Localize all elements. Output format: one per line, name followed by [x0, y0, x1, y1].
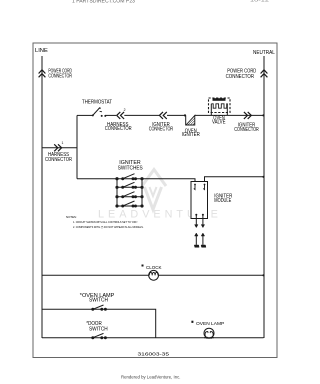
wire: top circuit — [77, 114, 93, 116]
wire: door switch rail — [42, 337, 264, 339]
notes — [66, 215, 144, 229]
label igniter switches — [118, 160, 144, 172]
oven lamp switch — [92, 305, 107, 310]
label oven lamp switch — [80, 293, 115, 304]
svg-text:SWITCH: SWITCH — [89, 297, 108, 303]
svg-text:THERMOSTAT: THERMOSTAT — [82, 100, 113, 106]
igniter module — [191, 182, 208, 219]
svg-text:OVEN LAMP: OVEN LAMP — [196, 321, 224, 327]
label power cord connector (left) — [48, 69, 72, 80]
label oven igniter — [182, 128, 200, 138]
wire: harness branch — [42, 147, 77, 149]
border frame — [33, 43, 277, 358]
svg-text:NEUTRAL: NEUTRAL — [253, 50, 275, 56]
label door switch — [86, 321, 108, 333]
igniter connector left chevrons — [159, 112, 166, 119]
svg-text:VALVE: VALVE — [212, 119, 226, 125]
label igniter module — [214, 193, 232, 203]
igniter switch 4 — [116, 201, 143, 207]
svg-text:CONNECTOR: CONNECTOR — [234, 127, 259, 133]
harness connector 1 chevrons — [54, 144, 61, 151]
svg-text:2. COMPONENTS WITH (*) DO NOT: 2. COMPONENTS WITH (*) DO NOT APPEAR IN … — [73, 225, 144, 229]
svg-text:1 PARTSDIRECT.COM P23: 1 PARTSDIRECT.COM P23 — [72, 0, 135, 5]
watermark logo — [142, 170, 166, 210]
svg-text:10-12: 10-12 — [250, 0, 270, 3]
oven valve — [209, 98, 231, 115]
node: neutral top junction — [262, 114, 264, 116]
wire: riser x77 — [76, 115, 78, 178]
wire: clock rail — [42, 274, 264, 276]
oven lamp — [204, 328, 214, 339]
wire — [195, 114, 264, 116]
igniter switches ladder — [117, 179, 142, 206]
label oven valve — [212, 115, 226, 125]
node: clock-neutral junction — [262, 274, 264, 276]
harness connector 2 chevrons — [117, 112, 124, 119]
svg-text:CLOCK: CLOCK — [146, 265, 162, 271]
wire — [105, 114, 116, 116]
label power cord connector (right) — [226, 69, 257, 81]
spark electrode right — [201, 215, 206, 248]
wire: right NEUTRAL rail — [263, 56, 265, 338]
door switch — [92, 333, 107, 338]
clock — [149, 270, 159, 280]
wire: module to neutral — [205, 177, 264, 182]
igniter switch 1 — [116, 174, 143, 180]
wire: igniter switch row — [77, 178, 117, 180]
label igniter connector left — [149, 122, 174, 132]
svg-text:CONNECTOR: CONNECTOR — [45, 157, 72, 163]
wire — [167, 114, 186, 116]
svg-text:SWITCH: SWITCH — [89, 327, 108, 333]
svg-text:CONNECTOR: CONNECTOR — [105, 126, 132, 132]
label harness connector 1 — [45, 152, 72, 163]
igniter switch 2 — [116, 182, 143, 188]
svg-text:Rendered by LeadVenture, Inc.: Rendered by LeadVenture, Inc. — [121, 375, 180, 380]
thermostat — [92, 108, 107, 117]
svg-text:316003-35: 316003-35 — [138, 351, 170, 356]
svg-text:1: 1 — [62, 141, 64, 145]
svg-text:CONNECTOR: CONNECTOR — [226, 74, 255, 80]
label clock — [142, 265, 163, 271]
svg-text:LINE: LINE — [35, 48, 48, 54]
spark electrode left — [194, 215, 199, 248]
label igniter connector right — [234, 122, 259, 133]
power cord connector (left) — [39, 70, 46, 78]
oven igniter — [186, 115, 195, 125]
power cord connector (right) — [261, 70, 268, 78]
wire: left LINE rail — [41, 56, 43, 338]
svg-text:2: 2 — [124, 108, 126, 112]
node: igniter feed — [184, 114, 186, 116]
svg-text:NOTES:: NOTES: — [66, 215, 77, 219]
svg-text:SWITCHES: SWITCHES — [118, 165, 144, 171]
wire — [124, 114, 159, 116]
label oven lamp — [191, 321, 224, 327]
svg-text:CONNECTOR: CONNECTOR — [149, 126, 174, 132]
svg-text:MODULE: MODULE — [214, 198, 232, 204]
node: neutral module junction — [262, 176, 264, 178]
wire: lamp switch rail — [42, 309, 156, 337]
label harness connector 2 — [105, 122, 132, 132]
svg-text:CONNECTOR: CONNECTOR — [48, 73, 72, 79]
igniter connector right chevrons — [244, 112, 251, 119]
svg-text:1. CIRCUIT SHOWN WITH ALL CONT: 1. CIRCUIT SHOWN WITH ALL CONTROLS SET T… — [73, 220, 138, 224]
svg-text:IGNITER: IGNITER — [182, 132, 200, 138]
wire: row to module — [142, 179, 195, 182]
igniter switch 3 — [116, 192, 143, 198]
